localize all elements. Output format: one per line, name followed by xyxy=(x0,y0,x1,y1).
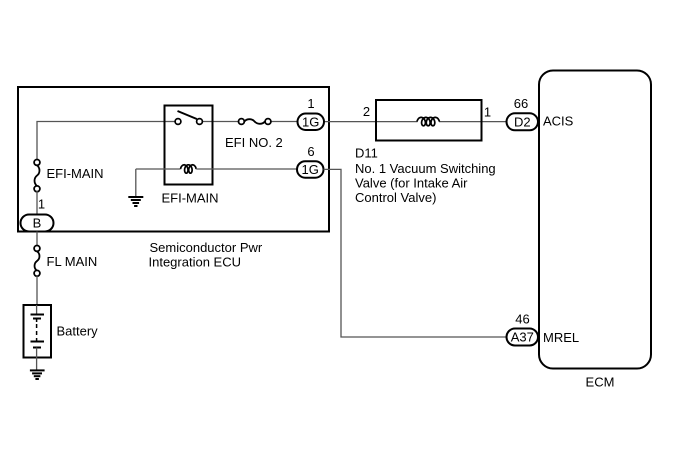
ground symbol (relay) xyxy=(128,197,143,206)
svg-text:1: 1 xyxy=(38,197,45,212)
battery xyxy=(24,305,52,358)
svg-text:6: 6 xyxy=(307,144,314,159)
svg-text:No. 1 Vacuum Switching: No. 1 Vacuum Switching xyxy=(355,161,496,176)
fusible link FL MAIN xyxy=(34,246,40,277)
wire: connector B to FL MAIN xyxy=(36,232,38,247)
wire: coil rail from ground stem to relay coil xyxy=(136,168,181,170)
svg-text:1G: 1G xyxy=(302,162,319,177)
connector B (oval) xyxy=(21,215,54,232)
svg-text:1: 1 xyxy=(484,105,491,120)
fusible link EFI-MAIN xyxy=(34,160,40,192)
svg-text:D11: D11 xyxy=(355,146,378,161)
wire: fuse to connector 1G pin 1 xyxy=(271,121,298,123)
wire: connector 1G pin 1 through ECU edge to D11 box xyxy=(324,121,376,123)
wire: switch right contact to fuse EFI NO.2 xyxy=(203,121,239,123)
wire: relay coil to connector 1G pin 6 xyxy=(196,168,297,170)
svg-text:MREL: MREL xyxy=(543,330,579,345)
svg-text:B: B xyxy=(33,216,42,231)
VSV D11 box xyxy=(376,100,482,141)
svg-text:66: 66 xyxy=(514,96,528,111)
svg-text:Battery: Battery xyxy=(57,324,99,339)
wire: battery to ground xyxy=(36,358,38,371)
connector 1G pin 6 (oval) xyxy=(297,161,324,178)
svg-text:Semiconductor Pwr: Semiconductor Pwr xyxy=(150,240,263,255)
relay switch right contact xyxy=(197,119,203,125)
ground symbol (battery) xyxy=(30,370,45,379)
label: No. 1 Vacuum Switching Valve (for Intake Air Control Valve) xyxy=(355,161,496,205)
svg-text:1G: 1G xyxy=(302,114,319,129)
svg-text:FL MAIN: FL MAIN xyxy=(47,254,98,269)
relay EFI-MAIN box xyxy=(165,106,213,185)
fuse EFI NO. 2 xyxy=(239,119,271,125)
svg-text:ACIS: ACIS xyxy=(543,114,574,129)
wire: top rail from left riser corner to relay box xyxy=(37,122,165,161)
svg-text:Control Valve): Control Valve) xyxy=(355,190,436,205)
wire: fusible link to connector B xyxy=(36,191,38,215)
connector 1G pin 1 (oval) xyxy=(298,114,325,131)
svg-text:Integration ECU: Integration ECU xyxy=(149,254,242,269)
relay switch blade (open) xyxy=(178,111,197,119)
svg-text:EFI-MAIN: EFI-MAIN xyxy=(162,191,219,206)
connector D2 (oval) xyxy=(507,113,539,130)
wire: inside D11 box to coil xyxy=(376,121,418,123)
D11 coil xyxy=(417,117,439,125)
wire: FL MAIN to battery xyxy=(36,276,38,306)
svg-text:Valve (for Intake Air: Valve (for Intake Air xyxy=(355,175,468,190)
ground stem (relay coil ground) xyxy=(135,169,137,197)
ECU box outline (Semiconductor Pwr Integration ECU) xyxy=(18,87,329,232)
connector A37 (oval) xyxy=(507,329,539,346)
relay coil xyxy=(181,165,197,173)
wire: 1G pin 6 to MREL riser xyxy=(324,169,507,337)
ECM box xyxy=(539,71,651,369)
wire: coil to D2 connector xyxy=(439,121,507,123)
relay switch left contact xyxy=(175,119,181,125)
svg-text:EFI-MAIN: EFI-MAIN xyxy=(47,166,104,181)
svg-text:46: 46 xyxy=(515,312,529,327)
svg-text:D2: D2 xyxy=(514,115,531,130)
wire: relay box left edge to switch left contact xyxy=(165,121,176,123)
label: Semiconductor Pwr Integration ECU xyxy=(149,240,263,269)
svg-text:2: 2 xyxy=(363,104,370,119)
svg-text:ECM: ECM xyxy=(586,375,615,390)
svg-text:1: 1 xyxy=(307,96,314,111)
svg-text:A37: A37 xyxy=(511,330,534,345)
svg-text:EFI NO. 2: EFI NO. 2 xyxy=(225,135,283,150)
